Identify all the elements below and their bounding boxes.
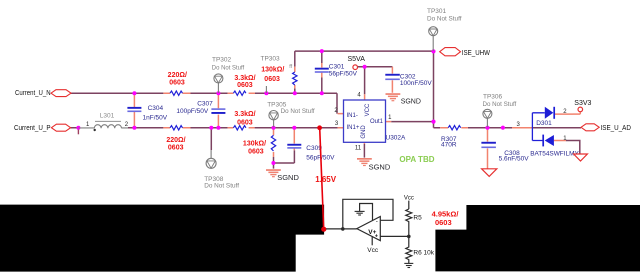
svg-text:SGND: SGND [277,173,299,182]
power symbol S3V3 [574,100,591,112]
svg-text:VCC: VCC [365,103,371,116]
svg-text:130kΩ/: 130kΩ/ [243,140,266,147]
black redaction block right [435,205,640,271]
svg-text:Current_U_N: Current_U_N [15,90,51,97]
wire feedback top net [295,51,434,93]
lower circuit: Vcc stub below op-amp [367,237,379,254]
svg-text:D301: D301 [536,120,552,127]
svg-text:SGND: SGND [401,98,421,105]
svg-text:Do Not Stuff: Do Not Stuff [483,101,517,108]
test point TP301 [429,27,438,51]
svg-text:470R: 470R [441,142,457,149]
svg-text:220Ω/: 220Ω/ [166,137,185,144]
svg-text:220Ω/: 220Ω/ [168,72,187,79]
power symbol S5VA [348,56,366,70]
svg-text:0603: 0603 [264,76,280,83]
black redaction block left [0,205,324,272]
resistor 220R top [168,72,187,96]
capacitor C308 [481,142,529,163]
svg-text:S3V3: S3V3 [574,100,591,107]
svg-text:0603: 0603 [168,144,184,151]
svg-text:R5: R5 [413,214,422,221]
svg-text:Current_U_P: Current_U_P [14,125,51,132]
svg-text:Out1: Out1 [370,119,384,125]
svg-text:Do Not Stuff: Do Not Stuff [427,16,462,23]
ground SGND under 130k [266,169,299,182]
svg-text:5.6nF/50V: 5.6nF/50V [499,155,530,162]
svg-text:56pF/50V: 56pF/50V [329,70,358,77]
annotation red pointer line 1.65V [315,125,337,231]
ground triangle under D301 pin1 [574,154,588,161]
wire Current_U_P net horizontal [71,127,338,129]
test point TP302 [214,74,223,93]
svg-text:U302A: U302A [386,134,407,141]
svg-text:ISE_U_AD: ISE_U_AD [601,125,631,132]
ground SGND under op-amp [357,158,391,171]
lower circuit: input wire [326,228,357,230]
svg-text:0603: 0603 [237,120,253,127]
wire 130k/C309 ground link [273,150,294,168]
wire op-amp pin11 to SGND [363,144,365,158]
wire S5VA net [358,67,393,95]
port ISE_U_AD [581,124,631,132]
capacitor C307 [176,100,225,115]
svg-text:3.3kΩ/: 3.3kΩ/ [234,111,255,118]
inductor L301 [78,112,128,131]
resistor R307 [441,125,461,148]
capacitor C309 [287,144,335,162]
svg-text:+: + [375,233,378,239]
svg-text:0603: 0603 [169,79,185,86]
pin stubs salmon [134,63,580,169]
svg-text:R6 10k: R6 10k [413,250,434,257]
svg-text:Vcc: Vcc [367,247,379,254]
svg-text:130kΩ/: 130kΩ/ [261,67,284,74]
svg-text:SGND: SGND [369,162,391,171]
svg-text:0603: 0603 [248,149,264,156]
svg-text:Do Not Stuff: Do Not Stuff [281,108,315,115]
lower circuit: resistor R6 10k [406,236,435,263]
svg-text:0603: 0603 [237,82,253,89]
diode D301 BAT54SW [517,107,580,158]
svg-text:0603: 0603 [435,218,452,227]
svg-text:C307: C307 [197,100,213,107]
wire stub below Current_U_P junction [77,128,79,135]
resistor 3.3k bottom [233,111,255,130]
svg-text:-: - [376,218,378,225]
lower circuit: ground [404,263,413,267]
wire TP308 drop [210,128,212,150]
junction dots magenta [76,49,505,165]
capacitor C301 [315,64,358,78]
test point TP308 [206,150,216,168]
port Current_U_P [14,124,71,132]
svg-text:S5VA: S5VA [348,56,366,63]
capacitor C304 [127,105,167,121]
svg-text:ff: ff [289,64,292,70]
svg-text:OPA TBD: OPA TBD [399,155,434,164]
lower circuit: inverting input ground branch [360,204,373,221]
op-amp U302A [334,92,406,151]
svg-text:C304: C304 [148,105,164,112]
test point TP306 [483,109,492,127]
svg-text:1nF/50V: 1nF/50V [143,115,168,122]
svg-text:11: 11 [355,145,362,151]
svg-text:1.65V: 1.65V [315,175,337,184]
resistor 3.3k top [233,75,255,96]
svg-text:Do Not Stuff: Do Not Stuff [204,183,239,190]
lower circuit: op-amp triangle [357,217,381,241]
svg-text:100nF/50V: 100nF/50V [400,80,432,87]
svg-text:BAT54SWFILMY: BAT54SWFILMY [530,150,579,157]
lower circuit: node A junction [341,227,345,231]
annotation text 4.95k [432,210,460,228]
lower circuit: feedback loop [343,199,393,229]
lower circuit: node dot R5/R6 [407,235,411,239]
port ISE_UHW [440,48,491,57]
svg-text:TP301: TP301 [427,8,447,15]
svg-text:GND: GND [361,125,367,139]
svg-text:L301: L301 [100,112,115,119]
lower circuit: Vcc rail top [404,196,414,210]
capacitor C302 [385,74,432,87]
ground SGND under C302 [386,93,421,105]
svg-text:TP303: TP303 [261,56,281,63]
resistor 130k feedback [261,64,297,85]
wire D301 pin1 to AGND [566,141,580,154]
svg-text:ISE_UHW: ISE_UHW [462,50,491,57]
resistor 220R bottom [166,126,185,152]
wire output pin1 net [391,51,581,128]
svg-text:IN1+: IN1+ [347,125,360,131]
svg-text:100pF/50V: 100pF/50V [176,108,208,115]
svg-text:3.3kΩ/: 3.3kΩ/ [234,75,255,82]
resistor 130k to SGND [243,135,276,155]
lower circuit: output wire [380,235,409,237]
wire Current_U_N net horizontal [71,93,337,113]
port Current_U_N [15,90,71,97]
svg-text:TP302: TP302 [212,57,232,64]
ground triangle under C308 [482,169,497,177]
lower circuit: resistor R5 [406,209,422,236]
svg-text:IN1-: IN1- [347,113,358,119]
svg-text:Do Not Stuff: Do Not Stuff [212,65,245,72]
test point TP303 [261,56,281,93]
wire C301 leads [321,51,323,93]
svg-text:TP306: TP306 [483,93,503,100]
test point TP305 [269,111,278,128]
